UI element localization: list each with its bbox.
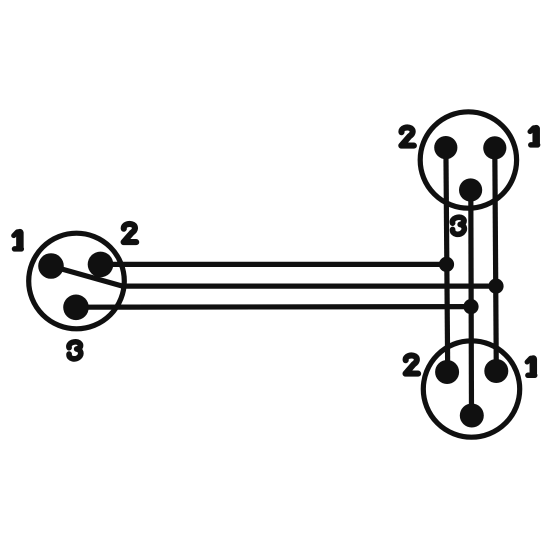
J1 pin 1 bbox=[38, 253, 64, 279]
label J2 pin 2 bbox=[401, 127, 414, 145]
J2 pin 1 bbox=[483, 136, 506, 159]
wire vertical pin1 chain bbox=[495, 148, 497, 371]
junction dot pin1 net bbox=[488, 279, 503, 294]
label J2 pin 1 bbox=[530, 128, 538, 145]
J3 pin 1 bbox=[484, 359, 508, 383]
wire pin2-left to junction (top horizontal) bbox=[101, 262, 447, 267]
junction dot pin2 net bbox=[439, 257, 454, 272]
J1 pin 2 bbox=[88, 252, 114, 278]
connector J3 body (bottom right male XLR) bbox=[423, 341, 519, 437]
J3 pin 2 bbox=[435, 360, 459, 384]
label J2 pin 3 bbox=[452, 217, 464, 234]
wire pin3-left to junction (bottom horizontal) bbox=[76, 304, 471, 310]
connector J2 body (top right male XLR) bbox=[420, 112, 516, 208]
connector J1 body (left female XLR) bbox=[29, 233, 125, 329]
label J3 pin 2 bbox=[406, 355, 419, 373]
J1 pin 3 bbox=[63, 295, 89, 321]
wire pin1-left diagonal+horizontal (middle) bbox=[51, 266, 496, 286]
wire vertical pin3 chain bbox=[468, 190, 474, 416]
J2 pin 2 bbox=[434, 136, 457, 159]
junction dot pin3 net bbox=[463, 299, 478, 314]
label J1 pin 3 bbox=[69, 342, 81, 359]
label J1 pin 2 bbox=[124, 224, 137, 242]
J2 pin 3 bbox=[459, 178, 482, 201]
label J3 pin 1 bbox=[527, 358, 535, 375]
label J1 pin 1 bbox=[14, 232, 22, 249]
J3 pin 3 bbox=[460, 404, 484, 428]
wire vertical pin2 chain bbox=[446, 148, 448, 372]
